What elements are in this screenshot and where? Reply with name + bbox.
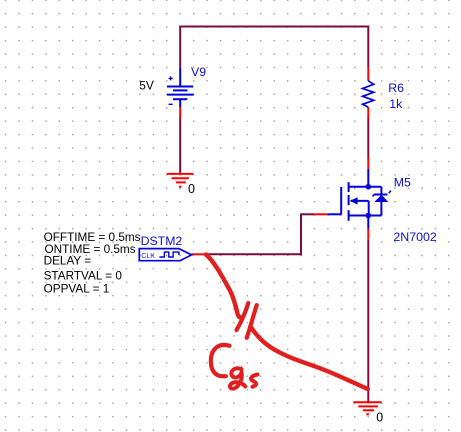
svg-text:0: 0 xyxy=(376,410,383,424)
wire gate vertical riser xyxy=(300,214,302,255)
svg-text:CLK: CLK xyxy=(141,253,155,260)
V9 minus sign xyxy=(169,103,173,105)
diode tick right xyxy=(389,191,391,194)
drain bar xyxy=(349,186,382,188)
attribute text block xyxy=(44,231,141,296)
DSTM2 clock stimulus symbol xyxy=(139,249,191,261)
drain lead xyxy=(367,169,369,187)
pin stub red below R6 xyxy=(367,107,369,118)
pin stub red below battery xyxy=(179,107,181,118)
svg-text:DSTM2: DSTM2 xyxy=(141,234,183,248)
bulk vertical xyxy=(368,201,370,216)
junction dot drain xyxy=(366,184,372,190)
pin stub red at gate xyxy=(314,213,328,215)
svg-text:0: 0 xyxy=(188,182,195,196)
ground right xyxy=(353,402,381,414)
gate bar xyxy=(340,187,342,214)
svg-text:M5: M5 xyxy=(394,175,411,189)
annotation capacitor slash 2 xyxy=(247,305,257,338)
svg-text:OFFTIME = 0.5ms: OFFTIME = 0.5ms xyxy=(44,231,141,244)
resistor R6 zigzag xyxy=(363,81,374,108)
body diode vertical xyxy=(380,187,382,216)
voltage source V9 battery symbol xyxy=(167,68,194,107)
diode triangle xyxy=(374,195,388,202)
source lead xyxy=(367,216,369,229)
wire left vertical lower (battery to ground) xyxy=(179,118,181,175)
svg-text:V9: V9 xyxy=(191,65,206,79)
mosfet M5 symbol xyxy=(328,169,388,229)
pin stub red at DSTM2 output xyxy=(192,253,207,255)
gate lead blue xyxy=(328,213,341,215)
wire gate horizontal into pin xyxy=(300,213,314,215)
svg-text:OPPVAL = 1: OPPVAL = 1 xyxy=(44,283,110,296)
V9 plus sign xyxy=(169,76,173,80)
svg-text:STARTVAL = 0: STARTVAL = 0 xyxy=(44,269,123,282)
diode tick left xyxy=(373,195,374,197)
wire DSTM2 to gate horizontal xyxy=(206,253,301,255)
wire right vertical upper xyxy=(367,26,369,68)
source bar xyxy=(349,215,382,217)
annotation text Cgs : letter g xyxy=(230,368,246,388)
svg-text:5V: 5V xyxy=(139,80,154,93)
junction dot source xyxy=(366,213,372,219)
svg-text:DELAY =: DELAY = xyxy=(44,255,92,268)
channel segment 3 xyxy=(348,210,350,221)
wire left vertical upper xyxy=(179,26,181,68)
annotation text Cgs : letter s xyxy=(251,375,257,387)
pin stub red above R6 xyxy=(367,67,369,81)
bulk line xyxy=(351,200,369,202)
pin stub red below source xyxy=(367,229,369,240)
diode cathode bar xyxy=(374,194,388,196)
wire right vertical lower (source to ground) xyxy=(367,239,369,403)
annotation capacitor slash 1 xyxy=(237,303,249,330)
wire top horizontal xyxy=(180,26,368,28)
clock waveform glyph xyxy=(159,252,179,257)
svg-text:1k: 1k xyxy=(389,97,403,111)
svg-text:R6: R6 xyxy=(388,81,404,95)
svg-text:2N7002: 2N7002 xyxy=(393,230,437,244)
annotation curve lower (capacitor to ground) xyxy=(251,327,368,389)
pin stub red above drain xyxy=(367,158,369,169)
annotation text Cgs : letter C xyxy=(211,345,230,376)
annotation curve upper (gate to capacitor) xyxy=(206,255,241,318)
ground left xyxy=(167,174,194,187)
bulk arrow head xyxy=(350,197,358,204)
channel segment 2 xyxy=(348,195,350,205)
channel segment 1 xyxy=(348,182,350,192)
wire right vertical middle (R6 to M5 drain) xyxy=(367,119,369,159)
